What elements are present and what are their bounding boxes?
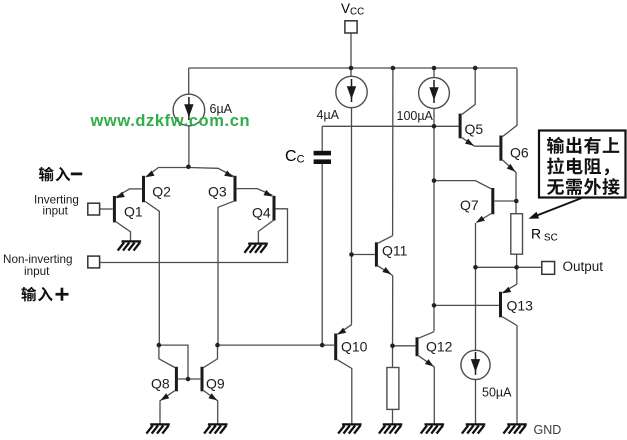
node Q7 base / Q6 emitter: [514, 199, 519, 204]
node Q12 base: [390, 344, 395, 349]
callout box: output has pull-up resistor, no external needed: [539, 131, 626, 198]
resistor Rsc: [511, 214, 523, 255]
wire Q7 base to Q6 emitter node: [495, 200, 517, 202]
svg-text:Q8: Q8: [151, 376, 170, 392]
wire node to Q13 base: [434, 304, 499, 306]
wire Q3 collector down to Q9 collector node: [218, 201, 233, 345]
capacitor Cc: [314, 151, 331, 164]
transistor Q11: [352, 236, 393, 276]
wire Q13 emitter to output node: [516, 267, 518, 284]
node Q8-Q9 base: [186, 377, 191, 382]
terminal output: [542, 262, 555, 275]
transistor Q9: [202, 345, 218, 424]
node rail-100uA junction: [432, 66, 437, 71]
svg-text:Q12: Q12: [426, 339, 453, 355]
terminal inverting input: [88, 203, 100, 215]
wire rail to Q11 collector: [392, 68, 394, 236]
transistor Q4: [237, 189, 274, 244]
node input tail: [186, 165, 191, 170]
svg-text:Q1: Q1: [124, 204, 143, 220]
svg-text:Q2: Q2: [152, 184, 171, 200]
node Q13 base: [432, 303, 437, 308]
transistor Q6: [501, 69, 517, 173]
wire Q6 emitter to Rsc: [515, 172, 517, 213]
svg-text:Q10: Q10: [341, 339, 368, 355]
wire Q2 collector down to Q8 collector node: [145, 202, 159, 346]
node Q7 collector: [432, 178, 437, 183]
wire Q8 collector-base tie: [159, 345, 188, 379]
node output-50uA junction: [473, 265, 478, 270]
svg-text:Q4: Q4: [252, 204, 271, 220]
ground Q8 emitter: [146, 424, 169, 433]
wire Cc top / 100uA node to Q5 base: [322, 125, 458, 127]
svg-text:Q13: Q13: [507, 298, 534, 314]
wire Q7 emitter down to 50uA source: [475, 223, 477, 351]
ground Q13 collector: [503, 424, 526, 433]
node rail-Q5 junction: [473, 66, 478, 71]
svg-text:Q11: Q11: [382, 243, 408, 259]
svg-text:Output: Output: [563, 259, 604, 274]
wire Vcc power rail: [189, 67, 517, 69]
wire 6uA source to input pair node: [188, 126, 190, 168]
node output-Rsc junction: [514, 265, 519, 270]
ground Q10 collector: [338, 424, 361, 433]
transistor Q5: [460, 68, 475, 146]
label input plus (Chinese): [21, 287, 68, 302]
ground Q12 emitter: [421, 424, 444, 433]
ground R1: [379, 424, 402, 433]
wire node to Q12 base: [393, 345, 416, 347]
svg-text:100µA: 100µA: [397, 109, 434, 123]
svg-text:Q3: Q3: [208, 184, 227, 200]
wire Q7 collector to 100uA line: [434, 180, 476, 182]
transistor Q7: [476, 181, 493, 223]
node Q11 base: [349, 252, 354, 257]
terminal Vcc: [345, 21, 357, 33]
current source I2 4uA: [336, 76, 367, 107]
wire 100uA node down through Q7/Q13-base nodes: [433, 126, 435, 331]
wire node to Cc top plate: [321, 126, 323, 151]
wire tail node to Q2 emitter: [146, 168, 188, 177]
ground Q1 collector: [118, 241, 141, 250]
wire Q11 emitter to resistor R1: [392, 276, 394, 368]
wire non-inverting input to Q4 base: [100, 209, 288, 263]
svg-text:Q9: Q9: [206, 376, 225, 392]
wire Vcc terminal to rail: [350, 33, 352, 69]
wire inverting input to Q1 base: [100, 208, 113, 210]
svg-text:input: input: [43, 205, 69, 218]
resistor R1: [387, 368, 399, 410]
wire Q1 emitter to Q2 base: [129, 188, 142, 190]
wire 4uA source down to Q11 base and Q10 emitter: [351, 108, 353, 325]
node Q9 collector: [215, 343, 220, 348]
wire Q12 emitter to ground: [433, 367, 435, 425]
ground 50uA source: [462, 424, 485, 433]
svg-text:Q5: Q5: [465, 121, 484, 137]
svg-text:input: input: [24, 265, 50, 278]
node Vcc-rail junction: [349, 66, 354, 71]
wire Q13 collector to ground: [516, 325, 518, 424]
wire Q9 collector node to Q10 base: [218, 344, 335, 346]
wire rail to 4uA source: [350, 68, 352, 77]
current source I4 50uA: [461, 350, 490, 379]
callout arrow to Rsc: [529, 198, 584, 219]
terminal non-inverting input: [88, 256, 100, 268]
wire rail to 100uA source: [433, 68, 435, 78]
current source I3 100uA: [419, 78, 450, 109]
wire 50uA source to ground: [475, 379, 477, 424]
ground Q9 emitter: [204, 424, 227, 433]
svg-text:GND: GND: [534, 423, 562, 437]
current source I1 6uA: [173, 94, 205, 126]
wire rail to 6uA source: [188, 68, 190, 95]
svg-text:4µA: 4µA: [317, 108, 340, 122]
wire output node to Output terminal: [476, 266, 542, 268]
transistor Q3: [224, 171, 235, 202]
transistor Q13: [501, 284, 518, 325]
wire 100uA source to Q5 base node: [433, 108, 435, 126]
node Q8 collector: [157, 343, 162, 348]
node Q5 base: [432, 124, 437, 129]
node Cc bottom: [320, 343, 325, 348]
wire Cc bottom plate to Q10 base node: [321, 164, 323, 345]
transistor Q10: [336, 325, 352, 425]
label input minus (Chinese): [39, 167, 82, 182]
svg-text:Q6: Q6: [510, 145, 529, 161]
wire Rsc bottom to output node: [516, 254, 518, 267]
transistor Q8: [159, 345, 200, 424]
svg-text:Q7: Q7: [460, 197, 479, 213]
svg-text:Non-inverting: Non-inverting: [3, 253, 73, 266]
svg-text:50µA: 50µA: [482, 386, 512, 400]
node rail-Q11 junction: [391, 66, 396, 71]
wire tail node to Q3 emitter: [188, 168, 233, 177]
transistor Q2: [144, 171, 155, 203]
ground Q4 collector: [244, 244, 267, 253]
transistor Q12: [417, 332, 434, 367]
transistor Q1: [114, 189, 130, 241]
svg-text:www.dzkfw.com.cn: www.dzkfw.com.cn: [90, 112, 251, 130]
wire Q5 emitter to Q6 base: [475, 145, 500, 147]
wire R1 to ground: [392, 409, 394, 424]
